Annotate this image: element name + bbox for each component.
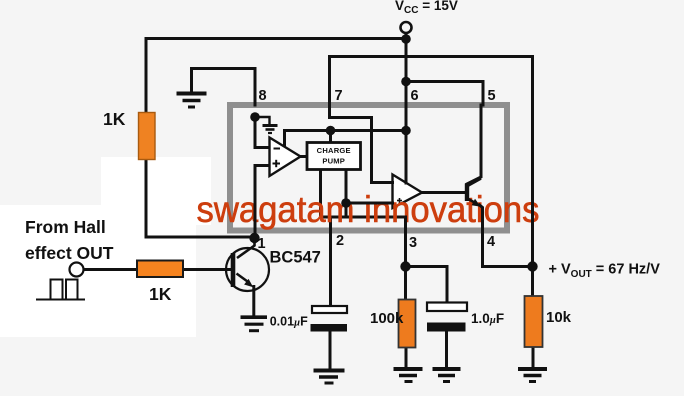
node Vcc junction xyxy=(401,34,411,44)
svg-text:3: 3 xyxy=(409,235,417,251)
wire bottom internal bus xyxy=(321,203,347,217)
svg-text:effect OUT: effect OUT xyxy=(25,243,114,263)
wire 1K pullup vertical xyxy=(145,39,148,114)
wire charge pump left stem xyxy=(319,170,322,218)
svg-text:swagatam innovations: swagatam innovations xyxy=(197,189,540,230)
svg-text:1.0µF: 1.0µF xyxy=(471,311,504,326)
node pin5/6 junction xyxy=(401,77,411,87)
svg-text:CHARGE: CHARGE xyxy=(317,146,351,155)
ground cap 0.01 xyxy=(314,371,345,384)
wire Vcc rail top xyxy=(146,37,406,40)
svg-text:PUMP: PUMP xyxy=(322,157,345,166)
node pin1 xyxy=(249,233,259,243)
svg-text:From Hall: From Hall xyxy=(25,217,106,237)
wire hall input xyxy=(84,268,137,271)
wire cap 0.01 to ground xyxy=(329,332,332,369)
wire pin3 to 100k xyxy=(404,267,407,300)
wire 100k to ground xyxy=(405,348,408,368)
wire 1K base xyxy=(183,268,231,271)
svg-text:4: 4 xyxy=(487,234,495,250)
transistor Q2 internal xyxy=(467,179,481,203)
node pin8 internal xyxy=(250,112,260,122)
svg-text:1K: 1K xyxy=(149,284,172,304)
wire 10k to ground xyxy=(532,347,535,367)
capacitor C2 1.0uF xyxy=(427,303,467,312)
node pin6 internal xyxy=(401,126,411,136)
wire comparator output xyxy=(300,155,307,158)
wire pin7 internal to opamp xyxy=(330,105,393,183)
wire collector to pin5 xyxy=(467,105,481,184)
wire vout to 10k xyxy=(531,267,534,297)
transistor Q1 BC547 xyxy=(226,248,269,291)
resistor R1 1K vertical xyxy=(139,113,156,160)
wire pin3 to cap 1.0uF xyxy=(406,267,448,303)
resistor R2 1K horizontal xyxy=(137,261,183,278)
wire pin3 down xyxy=(404,217,407,267)
resistor R4 10k xyxy=(525,296,543,347)
ground emitter xyxy=(241,317,268,331)
ground 100k xyxy=(394,369,423,382)
svg-text:2: 2 xyxy=(336,233,344,249)
svg-text:5: 5 xyxy=(488,88,496,104)
wire charge pump right stem xyxy=(345,170,348,204)
wire opamp plus input xyxy=(346,202,393,205)
node Vout xyxy=(527,261,537,271)
svg-text:8: 8 xyxy=(259,88,267,104)
wire pin5 to Vcc node xyxy=(406,82,483,106)
IC U1 body border xyxy=(230,105,507,231)
svg-text:7: 7 xyxy=(335,88,343,104)
svg-text:BC547: BC547 xyxy=(270,249,321,267)
wire comparator minus input xyxy=(255,117,270,148)
ground internal pin8 xyxy=(255,117,278,133)
svg-text:1: 1 xyxy=(258,236,266,252)
wire comparator plus input from pin1 xyxy=(255,166,270,239)
wire pin2 down to cap xyxy=(329,217,332,306)
charge pump U1c xyxy=(307,143,361,170)
node charge pump out xyxy=(341,198,351,208)
hall pulse waveform xyxy=(36,280,85,300)
op-amp U1a comparator xyxy=(270,138,301,177)
svg-text:6: 6 xyxy=(411,88,419,104)
op-amp U1b xyxy=(393,175,423,209)
node pin3 xyxy=(400,261,410,271)
wire pin8 to ground xyxy=(192,69,256,106)
svg-text:+ VOUT = 67 Hz/V: + VOUT = 67 Hz/V xyxy=(549,262,661,281)
white patch left upper xyxy=(101,157,211,225)
wire emitter down xyxy=(252,287,255,318)
wire Vcc terminal to pin6 xyxy=(405,34,408,184)
svg-text:1K: 1K xyxy=(103,109,126,129)
node charge pump top xyxy=(326,126,336,136)
hall input terminal xyxy=(70,263,84,277)
ground cap 1.0 xyxy=(433,369,461,382)
ground pin8 external xyxy=(177,94,207,108)
ground 10k xyxy=(518,369,547,382)
wire opamp output xyxy=(422,191,467,194)
wire emitter to pin4 xyxy=(480,205,533,267)
capacitor C1 0.01uF xyxy=(312,306,347,313)
Vcc terminal xyxy=(401,22,412,33)
wire 1K bottom to pin1 xyxy=(146,159,255,237)
wire internal vcc to comparator xyxy=(283,131,286,148)
svg-text:0.01µF: 0.01µF xyxy=(270,315,308,329)
wire internal vcc line xyxy=(285,129,407,132)
wire cap1.0 to ground xyxy=(445,332,448,368)
resistor R3 100k xyxy=(399,300,416,348)
wire pin7 rail to Vout column xyxy=(330,57,533,267)
svg-text:100k: 100k xyxy=(370,310,404,327)
white patch left xyxy=(0,205,196,337)
wire charge pump top stem xyxy=(329,131,332,143)
svg-text:10k: 10k xyxy=(546,309,572,326)
